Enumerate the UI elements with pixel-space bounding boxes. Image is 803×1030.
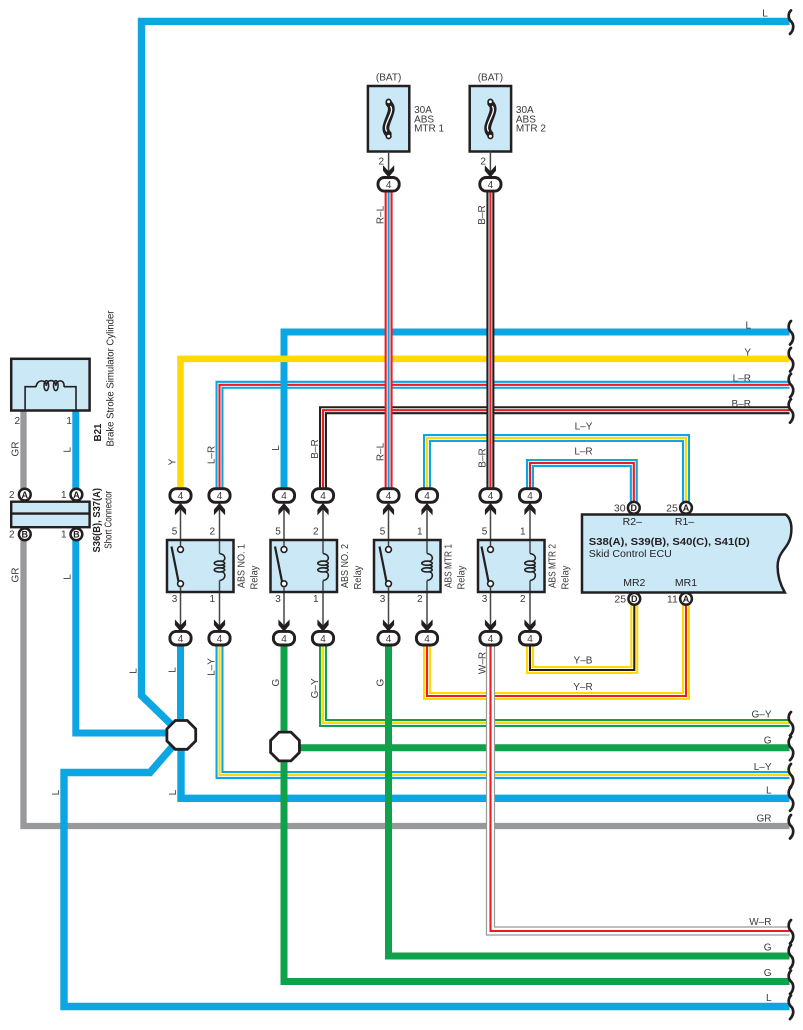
svg-text:L: L (51, 789, 62, 795)
svg-text:2: 2 (480, 157, 486, 168)
svg-text:R–L: R–L (375, 205, 386, 224)
svg-text:D: D (631, 503, 638, 513)
svg-text:1: 1 (61, 530, 67, 541)
svg-text:4: 4 (217, 634, 223, 645)
svg-text:30: 30 (614, 502, 626, 514)
svg-text:4: 4 (386, 180, 392, 191)
svg-text:Y: Y (167, 458, 178, 465)
svg-text:G: G (764, 968, 772, 979)
svg-text:4: 4 (281, 634, 287, 645)
svg-text:1: 1 (417, 527, 423, 538)
svg-text:3: 3 (275, 594, 281, 605)
svg-text:ABS MTR 1: ABS MTR 1 (443, 544, 454, 588)
svg-text:GR: GR (10, 568, 21, 583)
svg-text:4: 4 (488, 634, 494, 645)
svg-text:4: 4 (178, 491, 184, 502)
svg-text:2: 2 (9, 490, 15, 501)
svg-text:MR2: MR2 (623, 577, 645, 589)
svg-text:L: L (271, 445, 282, 451)
svg-text:5: 5 (275, 527, 281, 538)
svg-text:L: L (766, 785, 772, 796)
svg-text:4: 4 (320, 634, 326, 645)
svg-text:G–Y: G–Y (310, 678, 321, 698)
svg-text:L–R: L–R (574, 447, 592, 458)
svg-text:4: 4 (320, 491, 326, 502)
svg-text:R–L: R–L (375, 442, 386, 461)
svg-text:B–R: B–R (310, 439, 321, 458)
svg-text:W–R: W–R (477, 652, 488, 674)
svg-text:2: 2 (379, 157, 385, 168)
svg-text:L–Y: L–Y (754, 762, 772, 773)
svg-text:2: 2 (313, 527, 319, 538)
svg-text:1: 1 (66, 416, 72, 427)
svg-text:Y–B: Y–B (574, 656, 593, 667)
svg-text:3: 3 (172, 594, 178, 605)
svg-text:B–R: B–R (477, 448, 488, 467)
svg-text:B21: B21 (93, 423, 104, 441)
svg-text:B–R: B–R (732, 399, 751, 410)
svg-text:4: 4 (178, 634, 184, 645)
svg-text:Brake Stroke Simulator Cylinde: Brake Stroke Simulator Cylinder (106, 310, 117, 447)
svg-text:Y–R: Y–R (573, 682, 592, 693)
svg-text:4: 4 (424, 634, 430, 645)
svg-text:2: 2 (417, 594, 423, 605)
svg-text:S36(B), S37(A): S36(B), S37(A) (92, 488, 103, 553)
svg-text:2: 2 (15, 416, 21, 427)
svg-text:Relay: Relay (353, 565, 364, 590)
svg-text:4: 4 (488, 180, 494, 191)
svg-text:ABS NO. 1: ABS NO. 1 (236, 544, 247, 588)
svg-text:L–R: L–R (206, 446, 217, 464)
svg-text:4: 4 (527, 491, 533, 502)
svg-text:A: A (22, 490, 29, 500)
svg-text:A: A (683, 594, 690, 604)
svg-text:Relay: Relay (560, 565, 571, 590)
svg-text:L: L (167, 667, 178, 673)
svg-text:GR: GR (757, 813, 772, 824)
svg-text:L: L (63, 574, 74, 580)
svg-text:G–Y: G–Y (751, 709, 771, 720)
svg-text:11: 11 (667, 593, 678, 605)
svg-text:4: 4 (217, 491, 223, 502)
svg-text:L: L (168, 789, 179, 795)
svg-text:2: 2 (520, 594, 526, 605)
svg-text:MR1: MR1 (675, 577, 697, 589)
svg-text:GR: GR (10, 442, 21, 457)
svg-text:4: 4 (424, 491, 430, 502)
svg-text:L: L (128, 668, 139, 674)
svg-text:W–R: W–R (749, 917, 771, 928)
svg-text:1: 1 (520, 527, 526, 538)
svg-text:L–Y: L–Y (575, 422, 593, 433)
svg-text:2: 2 (209, 527, 215, 538)
svg-text:L–R: L–R (733, 373, 751, 384)
svg-text:B: B (73, 530, 80, 540)
svg-text:A: A (683, 503, 690, 513)
svg-text:B: B (22, 530, 29, 540)
svg-text:25: 25 (614, 593, 626, 605)
svg-text:Relay: Relay (249, 565, 260, 590)
svg-text:(BAT): (BAT) (376, 73, 401, 84)
svg-text:Y: Y (744, 347, 751, 358)
svg-text:L–Y: L–Y (206, 658, 217, 676)
svg-text:L: L (766, 993, 772, 1004)
svg-text:L: L (762, 9, 768, 20)
svg-text:G: G (375, 678, 386, 686)
svg-text:MTR 1: MTR 1 (414, 124, 444, 135)
svg-text:3: 3 (380, 594, 386, 605)
svg-text:5: 5 (482, 527, 488, 538)
svg-text:3: 3 (482, 594, 488, 605)
svg-text:A: A (73, 490, 80, 500)
svg-text:25: 25 (666, 502, 678, 514)
svg-text:ABS MTR 2: ABS MTR 2 (547, 544, 558, 588)
svg-text:Relay: Relay (456, 565, 467, 590)
svg-text:4: 4 (386, 634, 392, 645)
svg-text:4: 4 (281, 491, 287, 502)
svg-text:L: L (745, 320, 751, 331)
svg-text:2: 2 (9, 530, 15, 541)
svg-text:G: G (764, 735, 772, 746)
svg-text:Short Connector: Short Connector (104, 490, 115, 548)
svg-text:L: L (63, 447, 74, 453)
svg-text:B–R: B–R (477, 205, 488, 224)
svg-text:(BAT): (BAT) (478, 73, 503, 84)
svg-text:D: D (631, 594, 638, 604)
svg-text:S38(A), S39(B), S40(C), S41(D): S38(A), S39(B), S40(C), S41(D) (589, 537, 750, 548)
svg-text:5: 5 (172, 527, 178, 538)
svg-text:ABS NO. 2: ABS NO. 2 (340, 544, 351, 588)
svg-text:5: 5 (380, 527, 386, 538)
svg-text:R1–: R1– (675, 516, 694, 528)
svg-text:MTR 2: MTR 2 (516, 124, 546, 135)
svg-text:4: 4 (386, 491, 392, 502)
svg-text:1: 1 (61, 490, 67, 501)
svg-text:G: G (271, 678, 282, 686)
svg-text:Skid Control ECU: Skid Control ECU (589, 549, 672, 560)
svg-text:G: G (764, 942, 772, 953)
svg-text:R2–: R2– (623, 516, 642, 528)
svg-text:1: 1 (313, 594, 319, 605)
svg-text:4: 4 (527, 634, 533, 645)
svg-text:1: 1 (209, 594, 215, 605)
svg-text:4: 4 (488, 491, 494, 502)
